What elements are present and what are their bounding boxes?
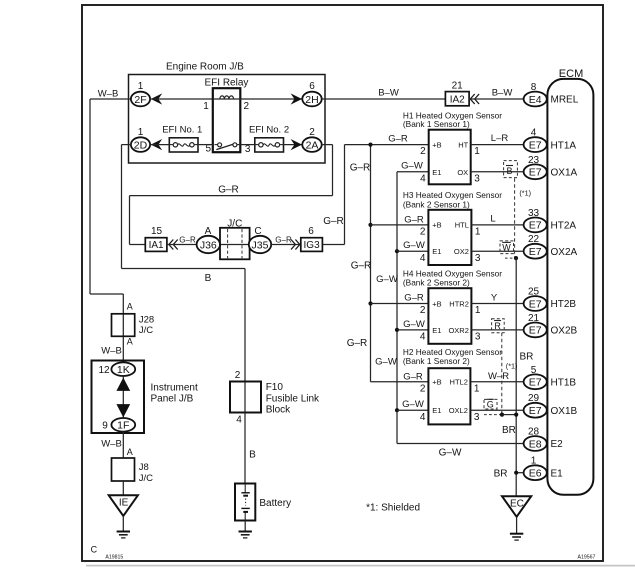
svg-text:G–W: G–W: [402, 399, 424, 410]
svg-text:E1: E1: [432, 326, 441, 335]
svg-text:E1: E1: [551, 468, 564, 479]
svg-text:3: 3: [474, 412, 480, 423]
svg-text:*1: Shielded: *1: Shielded: [366, 503, 420, 514]
svg-text:4: 4: [420, 332, 426, 343]
F10 fusible link block: [230, 382, 261, 413]
svg-text:E7: E7: [529, 325, 542, 337]
svg-text:BR: BR: [502, 425, 516, 436]
shield drain BR solid to EC: [515, 258, 517, 496]
svg-text:E6: E6: [529, 467, 542, 479]
svg-text:1K: 1K: [117, 364, 130, 376]
svg-text:G–R: G–R: [403, 372, 423, 383]
svg-text:HTL2: HTL2: [450, 378, 468, 387]
svg-text:IG3: IG3: [304, 240, 321, 251]
shield box G on OXL2 wire: [484, 399, 497, 409]
wire 2F to EFI relay pin 1: [150, 98, 213, 100]
svg-text:2H: 2H: [305, 94, 318, 106]
svg-text:EC: EC: [510, 499, 524, 510]
svg-text:G–W: G–W: [376, 274, 398, 285]
svg-text:G–R: G–R: [404, 214, 424, 225]
wire 2D down to B line: [122, 144, 132, 146]
svg-text:G–W: G–W: [403, 319, 425, 330]
svg-text:OXL2: OXL2: [449, 406, 468, 415]
svg-text:1: 1: [475, 305, 481, 316]
ground triangle IE: [109, 495, 138, 516]
svg-text:EFI Relay: EFI Relay: [205, 77, 249, 88]
svg-text:J36: J36: [200, 239, 217, 251]
svg-text:A: A: [127, 302, 133, 312]
svg-text:(*1): (*1): [506, 361, 518, 370]
svg-text:15: 15: [151, 226, 163, 237]
svg-text:J28: J28: [139, 315, 154, 326]
svg-text:(Bank 1 Sensor 2): (Bank 1 Sensor 2): [403, 356, 470, 366]
wire OXL2 to OX1B: [470, 409, 523, 411]
svg-text:B–W: B–W: [378, 88, 399, 99]
ground symbol: [117, 531, 130, 533]
svg-text:2: 2: [420, 227, 426, 238]
wire Y HTR2 to HT2B: [471, 303, 523, 305]
svg-text:1: 1: [474, 146, 480, 157]
svg-text:1: 1: [138, 81, 144, 92]
svg-text:W: W: [502, 243, 511, 253]
svg-text:2D: 2D: [134, 139, 148, 151]
svg-text:W–B: W–B: [101, 345, 122, 356]
svg-text:G–R: G–R: [388, 133, 408, 144]
svg-text:G–R: G–R: [351, 261, 372, 272]
svg-text:2: 2: [309, 127, 315, 138]
wire B-W 2H to IA2: [322, 98, 446, 100]
shield box B on OX1A wire: [504, 161, 518, 178]
svg-text:1: 1: [138, 127, 144, 138]
svg-text:G–R: G–R: [350, 163, 371, 174]
svg-text:2: 2: [244, 101, 250, 112]
svg-text:E7: E7: [529, 167, 542, 179]
svg-text:L–R: L–R: [491, 133, 509, 144]
svg-text:+B: +B: [432, 221, 441, 230]
svg-text:HT: HT: [458, 140, 468, 149]
svg-text:EFI No. 2: EFI No. 2: [249, 125, 289, 136]
svg-text:J8: J8: [139, 462, 149, 473]
wire B-W IA2 to ECM E4: [469, 98, 523, 100]
svg-text:J/C: J/C: [139, 473, 153, 484]
wire W-R HTL2 to HT1B: [470, 381, 523, 383]
svg-text:G–R: G–R: [218, 184, 239, 195]
svg-text:3: 3: [245, 144, 251, 155]
svg-text:B: B: [506, 166, 512, 176]
wire 2D to fuse1: [150, 144, 169, 146]
svg-text:G–W: G–W: [375, 357, 397, 368]
svg-text:G–W: G–W: [401, 160, 423, 171]
svg-text:E8: E8: [529, 438, 542, 450]
wire W-B from 2F to Instrument Panel J/B: [90, 98, 131, 100]
svg-text:EFI No. 1: EFI No. 1: [162, 125, 202, 136]
svg-text:Block: Block: [266, 405, 291, 416]
svg-text:Engine Room J/B: Engine Room J/B: [166, 62, 244, 73]
svg-text:+B: +B: [432, 140, 441, 149]
svg-text:E7: E7: [529, 246, 542, 258]
arrow down toward 1F: [116, 404, 130, 417]
svg-text:L: L: [490, 214, 495, 225]
wire J8 to IE ground: [122, 481, 124, 495]
shield box R on OX2B wire: [492, 319, 505, 333]
svg-text:(Bank 2 Sensor 1): (Bank 2 Sensor 1): [403, 199, 470, 209]
wire BR to E6 E1: [516, 472, 523, 474]
svg-text:9: 9: [102, 421, 108, 432]
svg-text:3: 3: [475, 332, 481, 343]
wire 1F to J8: [122, 432, 124, 459]
svg-text:G–W: G–W: [403, 240, 425, 251]
svg-text:C: C: [91, 545, 98, 555]
wire B from 2D to F10: [122, 268, 246, 270]
wire OXR2 to OX2B: [471, 329, 523, 331]
wire OX to OX1A: [471, 171, 524, 173]
wire fuse2 to 2A: [284, 144, 303, 146]
svg-text:E1: E1: [432, 247, 441, 256]
svg-text:G–R: G–R: [275, 235, 292, 244]
svg-text:G–R: G–R: [179, 235, 196, 244]
junction connector J28 J/C: [112, 314, 135, 337]
svg-text:3: 3: [474, 173, 480, 184]
arrow up toward 1K: [116, 378, 130, 391]
svg-text:HT1B: HT1B: [551, 378, 577, 389]
wire L HTL to HT2A: [471, 224, 523, 226]
svg-text:(Bank 2 Sensor 2): (Bank 2 Sensor 2): [403, 278, 470, 288]
svg-text:A: A: [127, 336, 133, 346]
svg-text:E1: E1: [432, 168, 441, 177]
wire G-R from 2A to IA1: [322, 144, 333, 146]
svg-text:E7: E7: [529, 220, 542, 232]
svg-text:12: 12: [98, 365, 110, 376]
svg-text:+B: +B: [432, 299, 441, 308]
svg-text:G–R: G–R: [347, 338, 368, 349]
svg-text:HTR2: HTR2: [449, 299, 469, 308]
svg-text:E7: E7: [529, 377, 542, 389]
svg-text:6: 6: [309, 81, 315, 92]
shield box W on OX2A wire: [500, 241, 514, 254]
svg-text:IA1: IA1: [149, 240, 164, 251]
svg-text:IE: IE: [119, 498, 129, 509]
svg-text:2: 2: [420, 146, 426, 157]
svg-text:3: 3: [475, 253, 481, 264]
svg-text:B: B: [249, 450, 256, 461]
svg-text:HT2A: HT2A: [551, 221, 577, 232]
svg-text:W–B: W–B: [98, 89, 119, 100]
svg-text:HTL: HTL: [455, 221, 469, 230]
wire 1K to 1F: [122, 376, 124, 418]
svg-text:BR: BR: [520, 352, 534, 363]
svg-text:4: 4: [236, 415, 242, 426]
Instrument Panel J/B box: [92, 361, 145, 434]
battery: [244, 484, 246, 493]
svg-text:IA2: IA2: [450, 95, 465, 106]
svg-text:1: 1: [203, 101, 209, 112]
svg-text:21: 21: [452, 80, 464, 91]
wire B F10 to battery: [244, 413, 246, 484]
svg-text:G: G: [487, 400, 494, 410]
svg-text:HT2B: HT2B: [551, 299, 577, 310]
svg-text:OXR2: OXR2: [448, 326, 468, 335]
svg-text:B–W: B–W: [492, 87, 513, 98]
svg-text:2: 2: [235, 370, 241, 381]
svg-text:6: 6: [308, 226, 314, 237]
svg-text:1: 1: [474, 383, 480, 394]
svg-text:4: 4: [420, 253, 426, 264]
wire OX2 to OX2A: [471, 250, 523, 252]
svg-text:OX1B: OX1B: [551, 406, 578, 417]
wire through F10: [244, 382, 246, 413]
svg-text:(*1): (*1): [519, 189, 531, 198]
wire J35 to IG3: [271, 244, 301, 246]
wire G-R +B feed vertical: [370, 145, 372, 382]
shield drain dashed below OX1B: [484, 414, 502, 416]
svg-text:2: 2: [420, 383, 426, 394]
svg-text:E7: E7: [529, 139, 542, 151]
ground below battery: [239, 531, 252, 533]
svg-text:Y: Y: [491, 292, 498, 303]
svg-text:OX2: OX2: [454, 247, 469, 256]
svg-text:A19815: A19815: [105, 554, 123, 560]
relay coil: [220, 96, 234, 99]
svg-text:Instrument: Instrument: [151, 383, 198, 394]
wire L-R HT to HT1A: [471, 144, 524, 146]
wire G-W E1 return vertical: [396, 172, 398, 444]
shield drain dashed from R: [501, 333, 503, 415]
svg-text:1F: 1F: [117, 420, 129, 432]
svg-text:G–W: G–W: [439, 448, 462, 459]
wire IA1 to J36: [167, 244, 197, 246]
Engine Room J/B box: [129, 75, 326, 164]
svg-text:R: R: [494, 321, 501, 331]
svg-text:Battery: Battery: [259, 498, 291, 509]
svg-text:W–B: W–B: [101, 438, 122, 449]
svg-text:OX1A: OX1A: [551, 168, 578, 179]
svg-text:E2: E2: [551, 439, 564, 450]
wire relay pin 3 to fuse2: [240, 144, 255, 146]
svg-text:A: A: [127, 447, 133, 457]
svg-text:F10: F10: [266, 382, 284, 393]
svg-text:2A: 2A: [306, 139, 319, 151]
wire relay pin 2 to 2H: [240, 98, 302, 100]
svg-text:G–R: G–R: [404, 293, 424, 304]
junction connector J8 J/C: [112, 458, 135, 481]
svg-text:B: B: [205, 273, 212, 284]
svg-text:+B: +B: [432, 378, 441, 387]
svg-text:E4: E4: [529, 94, 542, 106]
wire fuse1 to relay pin 5: [198, 144, 213, 146]
svg-text:Panel J/B: Panel J/B: [151, 393, 194, 404]
svg-text:E7: E7: [529, 298, 542, 310]
svg-text:MREL: MREL: [551, 95, 579, 106]
svg-text:2F: 2F: [134, 94, 146, 106]
svg-text:Fusible Link: Fusible Link: [266, 393, 320, 404]
svg-text:W–R: W–R: [488, 371, 509, 382]
ground triangle EC: [502, 496, 531, 517]
svg-text:BR: BR: [494, 469, 508, 480]
shield drain dashed vertical: [514, 178, 516, 257]
svg-text:A19567: A19567: [578, 555, 596, 561]
svg-text:HT1A: HT1A: [551, 140, 577, 151]
svg-text:4: 4: [420, 412, 426, 423]
svg-text:OX2B: OX2B: [551, 326, 578, 337]
wire battery to ground: [244, 521, 246, 532]
ground symbol EC: [510, 533, 523, 535]
svg-text:E7: E7: [529, 405, 542, 417]
svg-text:1: 1: [475, 227, 481, 238]
wire through J/C: [208, 244, 271, 246]
wire G-R IG3 up to sensor feed: [322, 244, 344, 246]
svg-text:2: 2: [420, 305, 426, 316]
svg-text:G–R: G–R: [323, 216, 344, 227]
svg-text:E1: E1: [432, 406, 441, 415]
svg-text:4: 4: [420, 173, 426, 184]
svg-text:OX: OX: [457, 168, 468, 177]
svg-text:J35: J35: [252, 239, 269, 251]
svg-text:J/C: J/C: [139, 325, 153, 336]
border frame: [82, 5, 603, 561]
svg-text:OX2A: OX2A: [551, 247, 578, 258]
svg-text:(Bank 1 Sensor 1): (Bank 1 Sensor 1): [403, 119, 470, 129]
